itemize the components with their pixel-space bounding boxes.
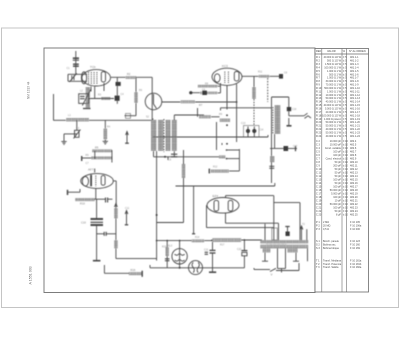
R13 chain — [183, 150, 185, 164]
svg-text:EZ4: EZ4 — [213, 194, 219, 198]
ground bar under C10 — [93, 260, 101, 262]
svg-text:R5: R5 — [95, 146, 99, 150]
wire into IF2 top — [221, 107, 272, 109]
node junctions on HT bus — [166, 240, 168, 242]
svg-text:F 10 182a: F 10 182a — [350, 266, 362, 269]
svg-text:R5: R5 — [86, 154, 90, 157]
svg-text:R6: R6 — [139, 89, 143, 92]
transformer T2 secondary winding hatched right — [288, 248, 298, 252]
svg-text:R17: R17 — [220, 244, 225, 247]
svg-text:R 24: R 24 — [316, 135, 322, 138]
left terminal bar of R6 — [81, 156, 83, 161]
grid arrow + ground lower (x=126.5) — [126, 211, 128, 225]
capacitor C4 dark blob — [115, 96, 120, 101]
svg-text:VALOR: VALOR — [327, 49, 336, 53]
svg-text:A 1551 003: A 1551 003 — [29, 266, 33, 284]
volume terminal + wire to V3 — [67, 190, 69, 195]
output tube EL3 (circle) — [172, 241, 187, 268]
svg-text:L1: L1 — [68, 114, 71, 117]
svg-text:± 10: ± 10 — [343, 213, 348, 216]
tube V1 TCH envelope — [81, 70, 110, 86]
svg-text:C 23: C 23 — [316, 213, 322, 216]
tube V3 envelope — [81, 174, 114, 189]
svg-text:C21: C21 — [204, 249, 209, 252]
table frame — [315, 49, 369, 293]
wire: V1 pins down — [90, 87, 92, 92]
table header rule — [315, 53, 369, 55]
long wire y=137 — [153, 136, 269, 138]
IF1 bottom connections — [153, 151, 155, 157]
antenna capacitor stack — [73, 51, 79, 74]
padder box with capacitor — [79, 94, 89, 104]
resistor R2 on anode wire — [126, 76, 137, 79]
resistor R5 — [92, 149, 112, 152]
grid arrow + ground upper — [126, 132, 128, 143]
resistor R10 under V3 — [75, 198, 95, 201]
wire to filament chain — [116, 258, 157, 260]
svg-text:R7: R7 — [199, 103, 203, 107]
table column line 1 — [321, 49, 323, 293]
cap right of R10 — [105, 198, 107, 203]
svg-text:± 5: ± 5 — [343, 135, 347, 138]
svg-text:C3: C3 — [76, 127, 80, 130]
wire: C4 vertical — [116, 78, 118, 82]
wire stub below V2 pin — [236, 137, 238, 142]
svg-text:R16: R16 — [131, 268, 136, 272]
svg-text:F 10 006: F 10 006 — [350, 228, 360, 231]
svg-text:C11: C11 — [125, 207, 130, 210]
svg-text:Bobina bloque: Bobina bloque — [323, 247, 340, 250]
svg-text:EL3: EL3 — [168, 245, 173, 248]
right common vertical — [111, 150, 113, 163]
node junction on filament riser — [156, 214, 158, 216]
capacitor C22 polarized — [243, 240, 245, 250]
svg-text:C14: C14 — [259, 129, 264, 132]
long wire y=185.8 — [176, 185, 275, 187]
secondary verticals — [264, 248, 266, 261]
wires EZ4 anode/heater to transformer — [226, 195, 274, 197]
table column line 2 — [341, 49, 343, 293]
svg-text:AF7: AF7 — [88, 168, 94, 172]
table rows — [316, 56, 362, 269]
wires left of V2: resistors — [198, 85, 218, 88]
feed vertical into primary — [264, 224, 266, 241]
mains wire + switch + V label — [254, 269, 270, 271]
svg-text:C4: C4 — [121, 93, 125, 96]
svg-text:L2: L2 — [80, 90, 83, 93]
capacitor C17 bars right of EL3 — [205, 251, 208, 253]
resistor R4 vertical + ground — [104, 129, 108, 140]
svg-text:Transf. Salida: Transf. Salida — [323, 266, 339, 269]
electrolytic C10 stack — [96, 199, 98, 218]
svg-text:P 3: P 3 — [316, 228, 320, 231]
svg-text:R4: R4 — [107, 126, 111, 129]
wire HT to transformer right side — [274, 202, 300, 204]
svg-text:8 μF: 8 μF — [336, 213, 342, 216]
capacitor on transformer top — [286, 232, 290, 237]
svg-text:V: V — [271, 273, 273, 277]
table column line 3 — [346, 49, 348, 293]
svg-text:C16: C16 — [292, 108, 297, 111]
resistor R9 under V2 + switch box verticals — [199, 115, 211, 118]
trimmer C3 — [75, 130, 80, 137]
resistor R14 on bus — [192, 239, 205, 242]
primary band 2 — [261, 245, 309, 248]
wire: V1 anode to right — [111, 76, 152, 78]
ground symbol — [61, 142, 66, 145]
svg-text:S 3: S 3 — [316, 247, 320, 250]
arrow lead + mains lead — [301, 226, 303, 240]
svg-text:C10: C10 — [81, 221, 86, 225]
capacitor blob upper — [116, 82, 121, 86]
svg-text:T2: T2 — [302, 223, 305, 226]
V2 pins down — [226, 85, 228, 109]
capacitor C16 dark blob — [287, 107, 291, 111]
resistor chain R11a/R11b with arrow (x=116) — [115, 204, 117, 209]
AVC dashed vertical — [267, 78, 269, 102]
svg-text:REF: REF — [316, 49, 322, 53]
IF2 bottom — [271, 105, 273, 148]
svg-text:R12: R12 — [213, 166, 218, 169]
band switch contacts — [226, 149, 239, 151]
speaker / output jack circle — [189, 261, 203, 275]
svg-text:481.1-24: 481.1-24 — [350, 135, 360, 138]
svg-text:TCh: TCh — [90, 65, 96, 69]
terminal C8 dark square — [279, 74, 283, 79]
svg-text:40.000 Ω 1 W: 40.000 Ω 1 W — [326, 135, 342, 138]
capacitor C21 electrolytic + ground — [212, 242, 214, 250]
svg-text:N° de ORDEN: N° de ORDEN — [349, 49, 366, 53]
svg-text:S2: S2 — [146, 116, 150, 119]
svg-text:R9: R9 — [219, 113, 223, 116]
svg-text:C8: C8 — [284, 72, 288, 75]
ground under detector — [287, 125, 292, 127]
coil S3 right of V2 (vertical) — [253, 76, 255, 87]
wire HT bus y=240 — [157, 240, 192, 242]
wire: L1 to right — [89, 119, 152, 121]
inner drawing frame — [44, 48, 315, 293]
trimmer cap + ground left — [64, 133, 77, 135]
transformer T2 secondary winding hatched left — [263, 248, 271, 252]
V3 cathode drop — [95, 188, 97, 199]
wire detector output vertical + resistor hatch + capacitor bars — [271, 148, 273, 183]
transformer winding former rect — [272, 228, 278, 240]
svg-text:R2: R2 — [127, 72, 131, 76]
table header text — [316, 49, 366, 53]
capacitor box near IF1 left — [126, 114, 131, 119]
svg-text:R10: R10 — [80, 202, 85, 206]
resistor R6 — [91, 156, 112, 159]
wire R16 left feed — [103, 265, 105, 273]
node junction below EL3 — [179, 267, 181, 269]
svg-text:C17: C17 — [293, 145, 298, 148]
wire + capacitor C17 row under IF2 — [270, 147, 297, 149]
svg-text:R3: R3 — [98, 94, 102, 97]
svg-text:C22: C22 — [237, 248, 242, 251]
resistor R6 vertical left of indicator — [134, 92, 137, 103]
svg-text:R14: R14 — [195, 236, 200, 239]
svg-text:R15: R15 — [162, 246, 167, 249]
wire through R3 — [89, 98, 115, 100]
svg-text:NM 1313 44: NM 1313 44 — [27, 81, 31, 99]
primary band 1 — [261, 240, 309, 243]
antenna coil L1 horizontal hatched — [66, 118, 89, 122]
trimmer capacitors C13/C14 (dark dots) in osc box — [244, 126, 260, 138]
wire: antenna section left drop — [53, 94, 55, 121]
svg-text:482.25: 482.25 — [350, 213, 358, 216]
capacitor C9 below IF1 — [171, 153, 177, 155]
svg-text:C13: C13 — [241, 122, 246, 125]
bottom wire y=267.8 — [150, 267, 167, 269]
wire + resistor R7 to V2 grid — [162, 101, 237, 103]
capacitor on wire y=233.8 — [97, 233, 105, 235]
wires into IF1 — [151, 77, 153, 120]
V2 anode wire right w/ resistor — [242, 75, 279, 77]
svg-text:C9: C9 — [168, 159, 172, 162]
resistor R3 horizontal — [101, 97, 111, 100]
svg-text:C1: C1 — [67, 67, 71, 70]
svg-text:F 10 169: F 10 169 — [350, 247, 360, 250]
resistor R17 heater dropper band — [213, 238, 242, 241]
oscillator coil L2 (hatched) — [86, 87, 90, 108]
svg-text:C7: C7 — [86, 162, 90, 165]
tuning capacitor C1 (arrow) — [69, 73, 77, 82]
resistor R12 with terminal bar — [211, 170, 230, 173]
detector wire + arrow — [289, 115, 304, 117]
resistor R16 with right terminal bar — [129, 272, 142, 275]
svg-text:T2 110 125 150 220 V: T2 110 125 150 220 V — [266, 244, 287, 246]
svg-text:0,5 Ω: 0,5 Ω — [323, 228, 329, 231]
svg-text:T 3: T 3 — [316, 266, 320, 269]
resistor R15 vertical + capacitor bars — [166, 247, 169, 256]
svg-text:R11: R11 — [258, 71, 263, 74]
magic-eye indicator circle — [145, 93, 162, 110]
svg-text:KC3: KC3 — [222, 64, 228, 68]
coil bottom bar — [83, 108, 91, 110]
wire: antenna pair horizontals — [68, 73, 87, 75]
wire IF1 secondary down — [156, 151, 158, 261]
